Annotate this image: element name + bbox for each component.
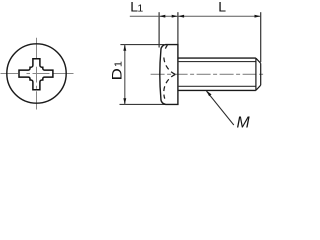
thread minor line bottom bbox=[178, 85, 256, 87]
chamfer bottom bbox=[256, 85, 261, 90]
recess profile hidden arc upper bbox=[164, 45, 175, 74]
screw head circle (front view) bbox=[7, 44, 66, 103]
L arrow left bbox=[178, 15, 184, 18]
D1 label bbox=[109, 61, 125, 80]
M leader line bbox=[206, 91, 233, 125]
chamfer start line bbox=[255, 58, 257, 90]
shank top edge bbox=[178, 57, 256, 59]
D1 arrow down bbox=[123, 98, 126, 104]
L1 arrow right bbox=[172, 15, 178, 18]
D1 dimension line bbox=[124, 45, 126, 105]
screw tip end face bbox=[260, 63, 262, 85]
front view centerline horizontal bbox=[1, 73, 74, 75]
svg-text:M: M bbox=[237, 115, 251, 132]
svg-text:1: 1 bbox=[137, 3, 143, 15]
pan head outline (side view) bbox=[160, 45, 178, 105]
svg-text:D: D bbox=[109, 68, 125, 80]
phillips cross recess (front view) bbox=[19, 59, 53, 90]
L1 left extension line bbox=[158, 12, 160, 47]
L1 arrow left bbox=[159, 15, 165, 18]
svg-text:L: L bbox=[218, 0, 226, 15]
side view centerline bbox=[151, 73, 266, 75]
recess profile hidden arc lower bbox=[164, 74, 176, 104]
svg-text:1: 1 bbox=[113, 61, 125, 67]
shank bottom edge bbox=[178, 89, 256, 91]
chamfer top bbox=[256, 58, 261, 63]
L right extension line bbox=[260, 12, 262, 62]
D1 bottom extension line bbox=[120, 103, 166, 105]
D1 top extension line bbox=[120, 44, 164, 46]
dimension line L1 and L bbox=[130, 15, 261, 17]
D1 arrow up bbox=[123, 45, 126, 51]
L arrow right bbox=[255, 15, 261, 18]
front view centerline vertical bbox=[36, 38, 38, 110]
M leader arrow bbox=[206, 91, 211, 97]
L1 right / L left extension line (above head) bbox=[177, 12, 179, 44]
thread minor line top bbox=[178, 61, 256, 63]
